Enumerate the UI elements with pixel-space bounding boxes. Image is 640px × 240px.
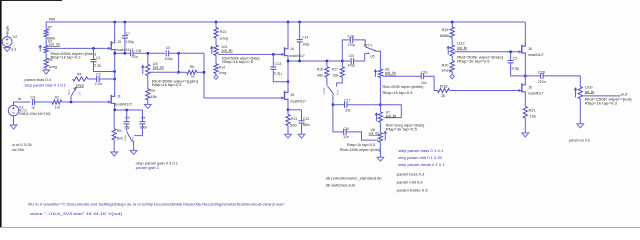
text U8 Rtot: [340, 148, 381, 152]
capacitor C15: [351, 58, 353, 64]
resistor Rb: [187, 70, 197, 74]
label U8: [371, 128, 375, 132]
svg-text:50%: 50%: [67, 89, 71, 95]
text U8 Rtap: [347, 143, 376, 147]
ground below U10: [577, 124, 584, 128]
svg-text:pot_lin: pot_lin: [222, 48, 233, 52]
text .param bass: [396, 173, 425, 177]
svg-text:680k: 680k: [440, 34, 450, 38]
wiper arrow U8: [384, 131, 387, 140]
wire to J9 gate: [204, 97, 280, 99]
svg-text:470p: 470p: [348, 64, 355, 68]
wire SW2 common: [332, 94, 334, 104]
text wavefile directive: [28, 202, 286, 206]
junction rail at C14: [298, 21, 300, 23]
wire junction up to Rb wiper: [70, 96, 72, 102]
svg-text:R5: R5: [117, 129, 122, 133]
text .tran: [12, 148, 25, 152]
text .step param treble: [397, 163, 445, 167]
value 1meg R8: [49, 65, 58, 69]
svg-text:PWR: PWR: [6, 26, 10, 34]
resistor R14: [214, 64, 218, 74]
svg-text:Rb: Rb: [190, 65, 194, 69]
svg-text:2k: 2k: [441, 94, 445, 98]
svg-text:out: out: [621, 93, 627, 97]
wire R8 to ground: [45, 68, 47, 70]
capacitor C8: [131, 50, 133, 56]
label C17: [344, 98, 350, 102]
label J5: [528, 85, 532, 89]
model J3 mosbf4117: [115, 48, 133, 52]
text .step param gain: [135, 161, 178, 165]
svg-text:Rtap=1k tap=0.3: Rtap=1k tap=0.3: [51, 55, 81, 59]
wire U6 wiper out: [383, 75, 422, 77]
svg-text:.step param bass 0 1 0.1: .step param bass 0 1 0.1: [397, 149, 443, 153]
label U3: [153, 62, 158, 66]
transistor J4: [279, 44, 288, 59]
wire C2 to drain node: [99, 78, 115, 80]
wire C16 to switch top: [353, 40, 366, 47]
resistor R20: [450, 61, 454, 72]
wire J4 source node: [288, 60, 351, 62]
text .param mid: [396, 180, 423, 184]
svg-text:Rtap=1k tap=0.5: Rtap=1k tap=0.5: [383, 91, 413, 95]
potentiometer R4: [73, 77, 88, 81]
junction rail at J3: [114, 21, 116, 23]
text U11 Rtap: [222, 60, 253, 64]
svg-text:PWR: PWR: [49, 17, 56, 21]
wire J6 source to J5 drain: [524, 56, 526, 80]
ground diamond below R14: [214, 75, 218, 80]
label R18: [440, 85, 448, 89]
text U10 Rtot: [585, 98, 633, 102]
node PWR flag rotated at V2: [6, 26, 10, 34]
junction rail at R13: [215, 21, 217, 23]
svg-text:220n: 220n: [538, 80, 546, 84]
label R14: [219, 65, 225, 69]
junction rail at J4: [287, 21, 289, 23]
value 3.3u: [511, 67, 520, 71]
capacitor C19: [421, 73, 423, 79]
junction R5: [114, 109, 116, 111]
label U10 pot_lin: [585, 90, 595, 94]
svg-text:1meg: 1meg: [219, 71, 226, 75]
wire R20 to ground: [451, 72, 453, 75]
rotated text SW2 right: [336, 89, 340, 95]
svg-text:.param mid 0.6: .param mid 0.6: [396, 180, 423, 184]
svg-text:mid: mid: [322, 87, 326, 94]
svg-text:2.2µ: 2.2µ: [274, 72, 283, 76]
svg-text:pot_lin: pot_lin: [369, 131, 380, 135]
value 20n: [421, 81, 426, 85]
label R11: [291, 117, 297, 121]
svg-text:270p: 270p: [348, 43, 355, 47]
label U9: [48, 40, 53, 44]
svg-text:.step param mid 0 1 0.25: .step param mid 0 1 0.25: [397, 156, 442, 160]
svg-text:Rtap=1k tap=0.5: Rtap=1k tap=0.5: [222, 60, 253, 64]
wire Rb to merge: [197, 71, 204, 73]
ground below R11: [285, 134, 292, 138]
text U11 Rtot: [222, 57, 260, 61]
potentiometer U10: [578, 87, 582, 99]
svg-text:.param vol 0.6: .param vol 0.6: [568, 139, 590, 143]
capacitor C17: [345, 102, 347, 108]
wire rail to R13: [215, 22, 217, 28]
wire C8 to U3: [133, 52, 165, 54]
wire R19 to U12: [451, 38, 453, 45]
value 470p: [348, 64, 355, 68]
wiper arrow U7: [375, 113, 378, 121]
value 10k: [530, 114, 536, 118]
wire bypass vertical: [178, 53, 180, 72]
svg-text:tap: tap: [123, 134, 127, 141]
label Rb: [190, 65, 194, 69]
label U9 pot_lin: [49, 43, 60, 47]
text SW=1: [364, 44, 373, 48]
wiper arrow U10: [574, 88, 577, 98]
text AC 1 0: [19, 109, 27, 113]
wire rail to C14: [299, 22, 301, 40]
wire R17 stub: [341, 61, 343, 67]
node PWR rail wire: [46, 21, 525, 23]
junction SW2 node: [332, 104, 334, 106]
label U3 pot_lin: [153, 65, 164, 69]
text U12 Rtot: [457, 56, 504, 60]
text .step param bias: [23, 84, 66, 88]
junction J4 source: [287, 60, 289, 62]
potentiometer U7: [378, 112, 382, 123]
svg-text:J3: J3: [117, 40, 121, 44]
resistor R9: [146, 89, 150, 100]
label C1: [96, 56, 100, 60]
svg-text:J4: J4: [290, 47, 294, 51]
text .step param mid: [397, 156, 442, 160]
window left border: [0, 0, 2, 228]
svg-text:3.3: 3.3: [11, 47, 16, 51]
svg-text:C3: C3: [125, 116, 129, 120]
svg-text:pot_lin: pot_lin: [585, 90, 595, 94]
svg-text:J1: J1: [117, 95, 121, 99]
text .lib switches: [325, 184, 356, 188]
svg-text:.param bass 0.3: .param bass 0.3: [396, 173, 425, 177]
wire rail to J4 drain: [287, 22, 289, 45]
svg-text:C8: C8: [136, 49, 141, 53]
wire C13 top stub: [272, 54, 274, 67]
capacitor C20: [541, 73, 543, 79]
wire U5 to U6: [376, 51, 380, 69]
model J4 mosbf4117: [289, 54, 305, 58]
wire R9 to ground: [147, 100, 149, 104]
value 1k Rb: [191, 75, 194, 79]
svg-text:Rtot=150k wiper={mid}: Rtot=150k wiper={mid}: [340, 148, 381, 152]
text U9 Rtot: [51, 52, 97, 56]
svg-text:R11: R11: [291, 117, 297, 121]
wire C3b top stub: [510, 52, 512, 61]
svg-text:U5: U5: [370, 54, 374, 58]
junction J9 source: [287, 109, 289, 111]
svg-text:15k: 15k: [150, 95, 156, 99]
text U7 Rtap: [386, 128, 417, 132]
text .param gain: [135, 166, 159, 170]
svg-text:C4: C4: [30, 96, 35, 100]
svg-text:.step param bias 0 1 0.1: .step param bias 0 1 0.1: [23, 84, 66, 88]
capacitor C2: [97, 76, 99, 82]
junction C3 top: [126, 109, 128, 111]
wire R11 stub: [287, 110, 289, 115]
svg-text:100p: 100p: [302, 42, 309, 46]
svg-text:C2: C2: [96, 73, 101, 77]
label R8: [48, 58, 53, 62]
text U3 Rtap: [152, 83, 182, 87]
transistor J1: [106, 92, 115, 107]
text .param bias: [23, 78, 51, 82]
label U7 pot_lin: [386, 114, 397, 118]
resistor R13: [214, 28, 218, 39]
wire U9 to R8: [45, 53, 47, 58]
label C18: [343, 127, 348, 131]
text .ac: [12, 143, 32, 147]
ground below V2: [4, 47, 11, 52]
junction C16 branch: [341, 60, 343, 62]
label C2: [96, 73, 101, 77]
junction merge: [203, 71, 205, 73]
svg-text:Rtap=1k tap=0.5: Rtap=1k tap=0.5: [457, 60, 490, 64]
label J6: [528, 47, 532, 51]
wire U3 to R9: [147, 76, 149, 89]
svg-text:J6: J6: [528, 47, 532, 51]
svg-text:820: 820: [117, 136, 123, 140]
label R7: [48, 25, 53, 29]
label R1: [55, 96, 59, 100]
wire C3b bottom: [511, 63, 526, 76]
ground below U8: [377, 157, 384, 161]
label U11: [222, 45, 228, 49]
svg-text:in: in: [18, 97, 22, 101]
svg-text:C6: C6: [141, 116, 145, 120]
value 22n: [132, 55, 138, 59]
svg-text:C20: C20: [538, 70, 545, 74]
wire J3 source node: [115, 52, 131, 54]
wire U3 top stub: [147, 53, 149, 64]
wire C14 to source wire: [299, 42, 301, 61]
svg-text:pot_lin: pot_lin: [49, 43, 60, 47]
label C15: [349, 54, 355, 58]
wire U8 to ground: [379, 142, 381, 157]
svg-text:mosbf4117: mosbf4117: [290, 100, 306, 104]
wire R13 to U11: [215, 38, 217, 45]
svg-text:J9: J9: [290, 93, 294, 97]
value 56k: [317, 73, 323, 77]
svg-text:56k: 56k: [317, 73, 323, 77]
value 15k: [150, 95, 156, 99]
wire C5 to corner: [169, 52, 204, 54]
rotated text Rb right: [78, 90, 82, 95]
svg-text:100p: 100p: [165, 57, 173, 61]
value 220n: [538, 80, 546, 84]
junction C2 at drain line: [114, 78, 116, 80]
value 2.2n: [95, 82, 103, 86]
text U12 Rtap: [457, 60, 490, 64]
value 680k: [47, 36, 55, 40]
rotated text Rb left: [67, 89, 71, 95]
wire C20 left: [525, 75, 540, 77]
svg-text:U12: U12: [457, 42, 465, 46]
svg-text:R18: R18: [440, 85, 448, 89]
svg-text:Rtot=220K wiper={treble}: Rtot=220K wiper={treble}: [383, 85, 425, 89]
svg-text:R16: R16: [317, 68, 323, 72]
label R5: [117, 129, 122, 133]
label U11 pot_lin: [222, 48, 233, 52]
wire J1 source rail: [115, 109, 143, 111]
junction U3 top: [147, 52, 149, 54]
value 100p C14: [302, 42, 309, 46]
wiper arrow U3: [141, 66, 144, 75]
text U6 Rtot: [383, 85, 425, 89]
ground below V1: [10, 125, 17, 129]
switch S1 lever: [127, 132, 132, 141]
value 2k: [441, 94, 445, 98]
wire mid branch vertical: [332, 105, 334, 132]
svg-text:pot_lin: pot_lin: [386, 114, 397, 118]
label U12 pot_lin: [457, 46, 467, 50]
capacitor C5: [166, 50, 168, 56]
value 680n C6: [140, 126, 148, 130]
wire C1 bottom: [94, 62, 115, 72]
label R19: [442, 28, 449, 32]
value 1u: [31, 106, 35, 110]
transistor J3: [106, 38, 115, 53]
svg-text:C1: C1: [96, 56, 100, 60]
svg-text:C5: C5: [166, 46, 170, 50]
svg-text:C12: C12: [303, 117, 309, 121]
wire J1 source stub: [114, 107, 116, 110]
transistor J9: [279, 88, 288, 103]
wire C3 to switch: [126, 124, 128, 132]
label R9: [150, 89, 155, 93]
node PWR label: [49, 17, 56, 21]
ground below R9: [144, 104, 151, 108]
value 1m: [55, 106, 60, 110]
svg-text:3.3µ: 3.3µ: [511, 67, 520, 71]
resistor R1: [52, 100, 62, 104]
wire U3 wiper out: [150, 71, 179, 73]
potentiometer U8: [378, 133, 382, 143]
model J5 mosbf4117: [528, 91, 544, 95]
value 1meg R14: [219, 71, 226, 75]
wire R5 stub: [113, 110, 115, 129]
wire rail to R19: [451, 22, 453, 27]
model J6 mosbf4117: [528, 53, 544, 57]
wiper arrow U6: [374, 70, 377, 77]
text SINE: [19, 112, 51, 116]
value 270p: [348, 43, 355, 47]
svg-text:.param gain 1: .param gain 1: [135, 166, 159, 170]
value 680n C12: [303, 123, 310, 127]
svg-text:C19: C19: [421, 71, 427, 75]
svg-text:pot_lin: pot_lin: [457, 46, 467, 50]
svg-text:2.2µ: 2.2µ: [94, 63, 102, 67]
wire J9 source stub: [287, 103, 289, 110]
svg-text:Rtap=1k tap=0.5: Rtap=1k tap=0.5: [347, 143, 376, 147]
value 33k: [333, 73, 339, 77]
capacitor C7: [122, 36, 128, 38]
resistor R11: [286, 115, 290, 126]
wire U7 top stub: [379, 105, 381, 112]
svg-text:V2: V2: [13, 35, 18, 39]
wire switch common: [132, 141, 134, 151]
svg-text:2.2n: 2.2n: [95, 82, 103, 86]
wire R16 to switch: [326, 77, 328, 85]
window top-left edge: [0, 0, 62, 1]
svg-text:W1 in 0 wavefile="C:\Documents: W1 in 0 wavefile="C:\Documents and Setti…: [28, 202, 286, 206]
wire V1 to ground: [13, 116, 15, 125]
capacitor C4: [32, 99, 34, 105]
wire R17 to switch: [337, 77, 343, 86]
wire rail to J3 drain: [114, 22, 116, 38]
rotated text SW2 left: [322, 87, 326, 94]
svg-text:.param bias 0.4: .param bias 0.4: [23, 78, 51, 82]
label C16: [348, 35, 354, 39]
label U7: [386, 110, 390, 114]
wire C13 bottom: [273, 69, 288, 81]
wire C12 to ground: [301, 123, 303, 134]
capacitor C18: [344, 129, 346, 135]
svg-text:SINE(0 100m 440 0 60): SINE(0 100m 440 0 60): [19, 112, 51, 116]
value 33n C18: [343, 135, 348, 139]
text U10 Rtap: [585, 102, 617, 106]
wire PWR to R7: [45, 22, 47, 29]
potentiometer U3: [146, 64, 150, 75]
label C3b: [513, 57, 517, 61]
wire R4 to C2: [88, 78, 97, 80]
voltage source V1: [8, 105, 18, 115]
label U5: [370, 54, 374, 58]
node in label: [18, 97, 22, 101]
value 3.3: [11, 47, 16, 51]
label J4: [290, 47, 294, 51]
junction C14 bottom: [298, 60, 300, 62]
resistor R18: [438, 88, 450, 92]
wire C19 to R18: [424, 76, 438, 90]
svg-text:R17: R17: [332, 68, 338, 72]
wire C17 to U6 bottom: [347, 104, 381, 106]
capacitor C14: [297, 40, 303, 42]
svg-text:1meg: 1meg: [49, 65, 58, 69]
value 1meg R13: [219, 37, 228, 41]
transistor J6: [516, 42, 525, 57]
svg-text:.lib switches.sub: .lib switches.sub: [325, 184, 356, 188]
label C12: [303, 117, 309, 121]
svg-text:U10: U10: [585, 85, 593, 89]
svg-text:20n: 20n: [421, 81, 426, 85]
label R16: [317, 68, 323, 72]
ground diamond below R20: [450, 74, 454, 79]
wire R11 to ground: [287, 126, 289, 135]
label V1: [19, 106, 24, 110]
voltage source V2: [2, 37, 12, 47]
wire C6 stub: [142, 110, 144, 122]
wire R16 stub: [326, 61, 328, 67]
wire C15 to contact: [354, 53, 370, 62]
wire C7 to source wire: [124, 38, 126, 53]
junction bypass top: [177, 52, 179, 54]
wire to C18: [333, 131, 344, 133]
label C19: [421, 71, 427, 75]
label C6: [141, 116, 145, 120]
switch SW2 lever: [327, 86, 333, 94]
svg-text:33n: 33n: [343, 135, 348, 139]
junction U6 bottom: [379, 104, 381, 106]
